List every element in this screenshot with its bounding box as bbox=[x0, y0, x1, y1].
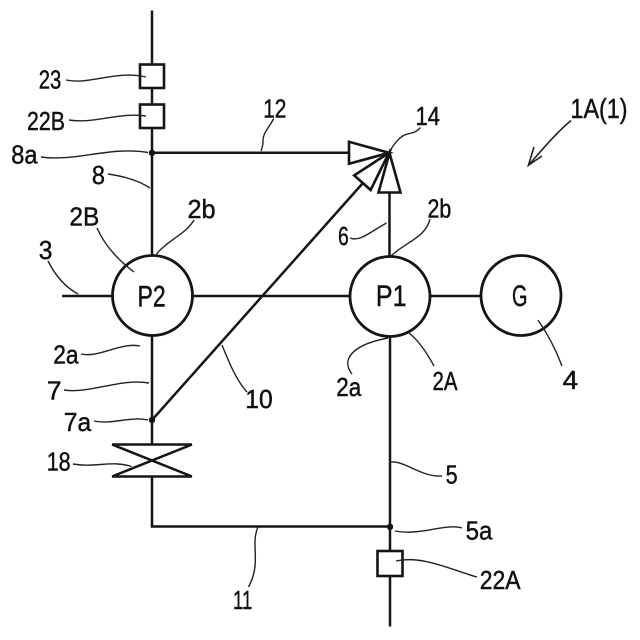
svg-text:23: 23 bbox=[39, 65, 62, 95]
leader line for label 2a (right) bbox=[348, 338, 388, 374]
svg-text:2A: 2A bbox=[433, 366, 459, 396]
wire: outlet below 22A bbox=[389, 576, 392, 627]
leader line for label 6 bbox=[350, 223, 387, 239]
leader line for label 18 bbox=[73, 464, 132, 467]
wire 3: left stub into P2 bbox=[62, 295, 113, 298]
svg-text:1A(1): 1A(1) bbox=[571, 93, 628, 124]
nozzle 14: vertical open arrowhead bbox=[379, 153, 401, 193]
leader line for label 5 bbox=[391, 462, 442, 476]
leader line for label 11 bbox=[249, 527, 259, 587]
svg-text:14: 14 bbox=[416, 101, 441, 131]
node 5a (junction dot) bbox=[387, 524, 393, 530]
leader line for label 10 bbox=[222, 345, 247, 392]
svg-text:7a: 7a bbox=[64, 407, 92, 437]
wire 6: from pump P1 up to nozzle 14 bbox=[388, 193, 391, 258]
svg-text:11: 11 bbox=[233, 585, 252, 615]
leader line for label 22B bbox=[69, 115, 146, 121]
pointer arrow for label 1A(1) (shaft) bbox=[528, 121, 571, 166]
wire: segment between 23 and 22B bbox=[151, 88, 154, 105]
svg-text:6: 6 bbox=[338, 221, 349, 251]
valve 18 (crossed valve symbol) bbox=[112, 445, 192, 477]
wire 10: diagonal line from node 7a to nozzle 14 bbox=[152, 184, 363, 421]
svg-text:2a: 2a bbox=[53, 340, 79, 370]
leader line for label 14 bbox=[389, 128, 420, 153]
pump P2 (circle) bbox=[113, 256, 193, 336]
nozzle 14: horizontal open arrowhead bbox=[349, 142, 389, 164]
pump P1 (circle) bbox=[350, 257, 430, 337]
wire: valve 18 down to bottom corner bbox=[151, 477, 154, 528]
svg-text:22B: 22B bbox=[27, 106, 65, 136]
svg-text:3: 3 bbox=[39, 235, 53, 265]
leader line for label 23 bbox=[66, 75, 146, 81]
leader line for label 2b (right) bbox=[392, 219, 431, 256]
leader line for label 7 bbox=[64, 382, 149, 391]
svg-text:2b: 2b bbox=[428, 193, 452, 223]
svg-text:5: 5 bbox=[446, 460, 458, 490]
svg-text:P2: P2 bbox=[138, 280, 166, 313]
wire: top inlet line above component 23 bbox=[151, 11, 154, 65]
leader line for label 22A bbox=[396, 560, 477, 577]
generator G (circle) bbox=[481, 256, 561, 336]
wire 8: from 22B down to pump P2 bbox=[151, 128, 154, 256]
svg-text:2a: 2a bbox=[336, 372, 361, 402]
leader line for label 2b (left) bbox=[157, 220, 195, 254]
svg-text:P1: P1 bbox=[376, 280, 407, 313]
wire: P2 to P1 bbox=[193, 295, 351, 298]
node 7a (junction dot) bbox=[149, 417, 155, 423]
svg-text:18: 18 bbox=[47, 446, 71, 476]
component 22B (square symbol) bbox=[140, 105, 164, 129]
leader line for label 8 bbox=[108, 174, 150, 188]
svg-text:G: G bbox=[512, 280, 528, 313]
svg-text:5a: 5a bbox=[466, 516, 493, 546]
svg-text:8a: 8a bbox=[11, 140, 38, 170]
leader line for label 7a bbox=[94, 419, 148, 422]
svg-text:10: 10 bbox=[245, 384, 272, 414]
leader line for label 2a (left) bbox=[81, 345, 140, 354]
wire 7: from P2 bottom down to valve 18 bbox=[151, 336, 154, 445]
leader line for label 4 bbox=[538, 320, 562, 366]
svg-text:22A: 22A bbox=[480, 565, 521, 595]
leader line for label 12 bbox=[261, 119, 274, 152]
wire 12: horizontal line from node 8a to nozzle 14 bbox=[152, 152, 349, 155]
leader line for label 5a bbox=[395, 527, 462, 532]
svg-text:2B: 2B bbox=[69, 201, 99, 231]
component 23 (square symbol) bbox=[140, 65, 164, 89]
leader line for label 2B bbox=[97, 228, 134, 272]
node 8a (junction dot) bbox=[149, 150, 155, 156]
leader line for label 3 bbox=[48, 261, 78, 294]
wire: P1 to generator G bbox=[430, 295, 481, 298]
leader line for label 8a bbox=[41, 151, 148, 158]
component 22A (square symbol) bbox=[378, 551, 403, 576]
svg-text:12: 12 bbox=[263, 93, 286, 123]
pointer arrow for label 1A(1) (arrowhead) bbox=[528, 147, 542, 165]
svg-text:8: 8 bbox=[92, 160, 105, 190]
svg-text:7: 7 bbox=[47, 375, 62, 405]
leader line for label 2A bbox=[409, 333, 434, 366]
svg-text:2b: 2b bbox=[188, 194, 216, 224]
wire 11: bottom horizontal run to node 5a bbox=[151, 525, 390, 528]
svg-text:4: 4 bbox=[563, 365, 579, 395]
wire 5: from P1 bottom down to component 22A bbox=[389, 337, 392, 552]
nozzle 14: diagonal open arrowhead bbox=[354, 153, 389, 190]
